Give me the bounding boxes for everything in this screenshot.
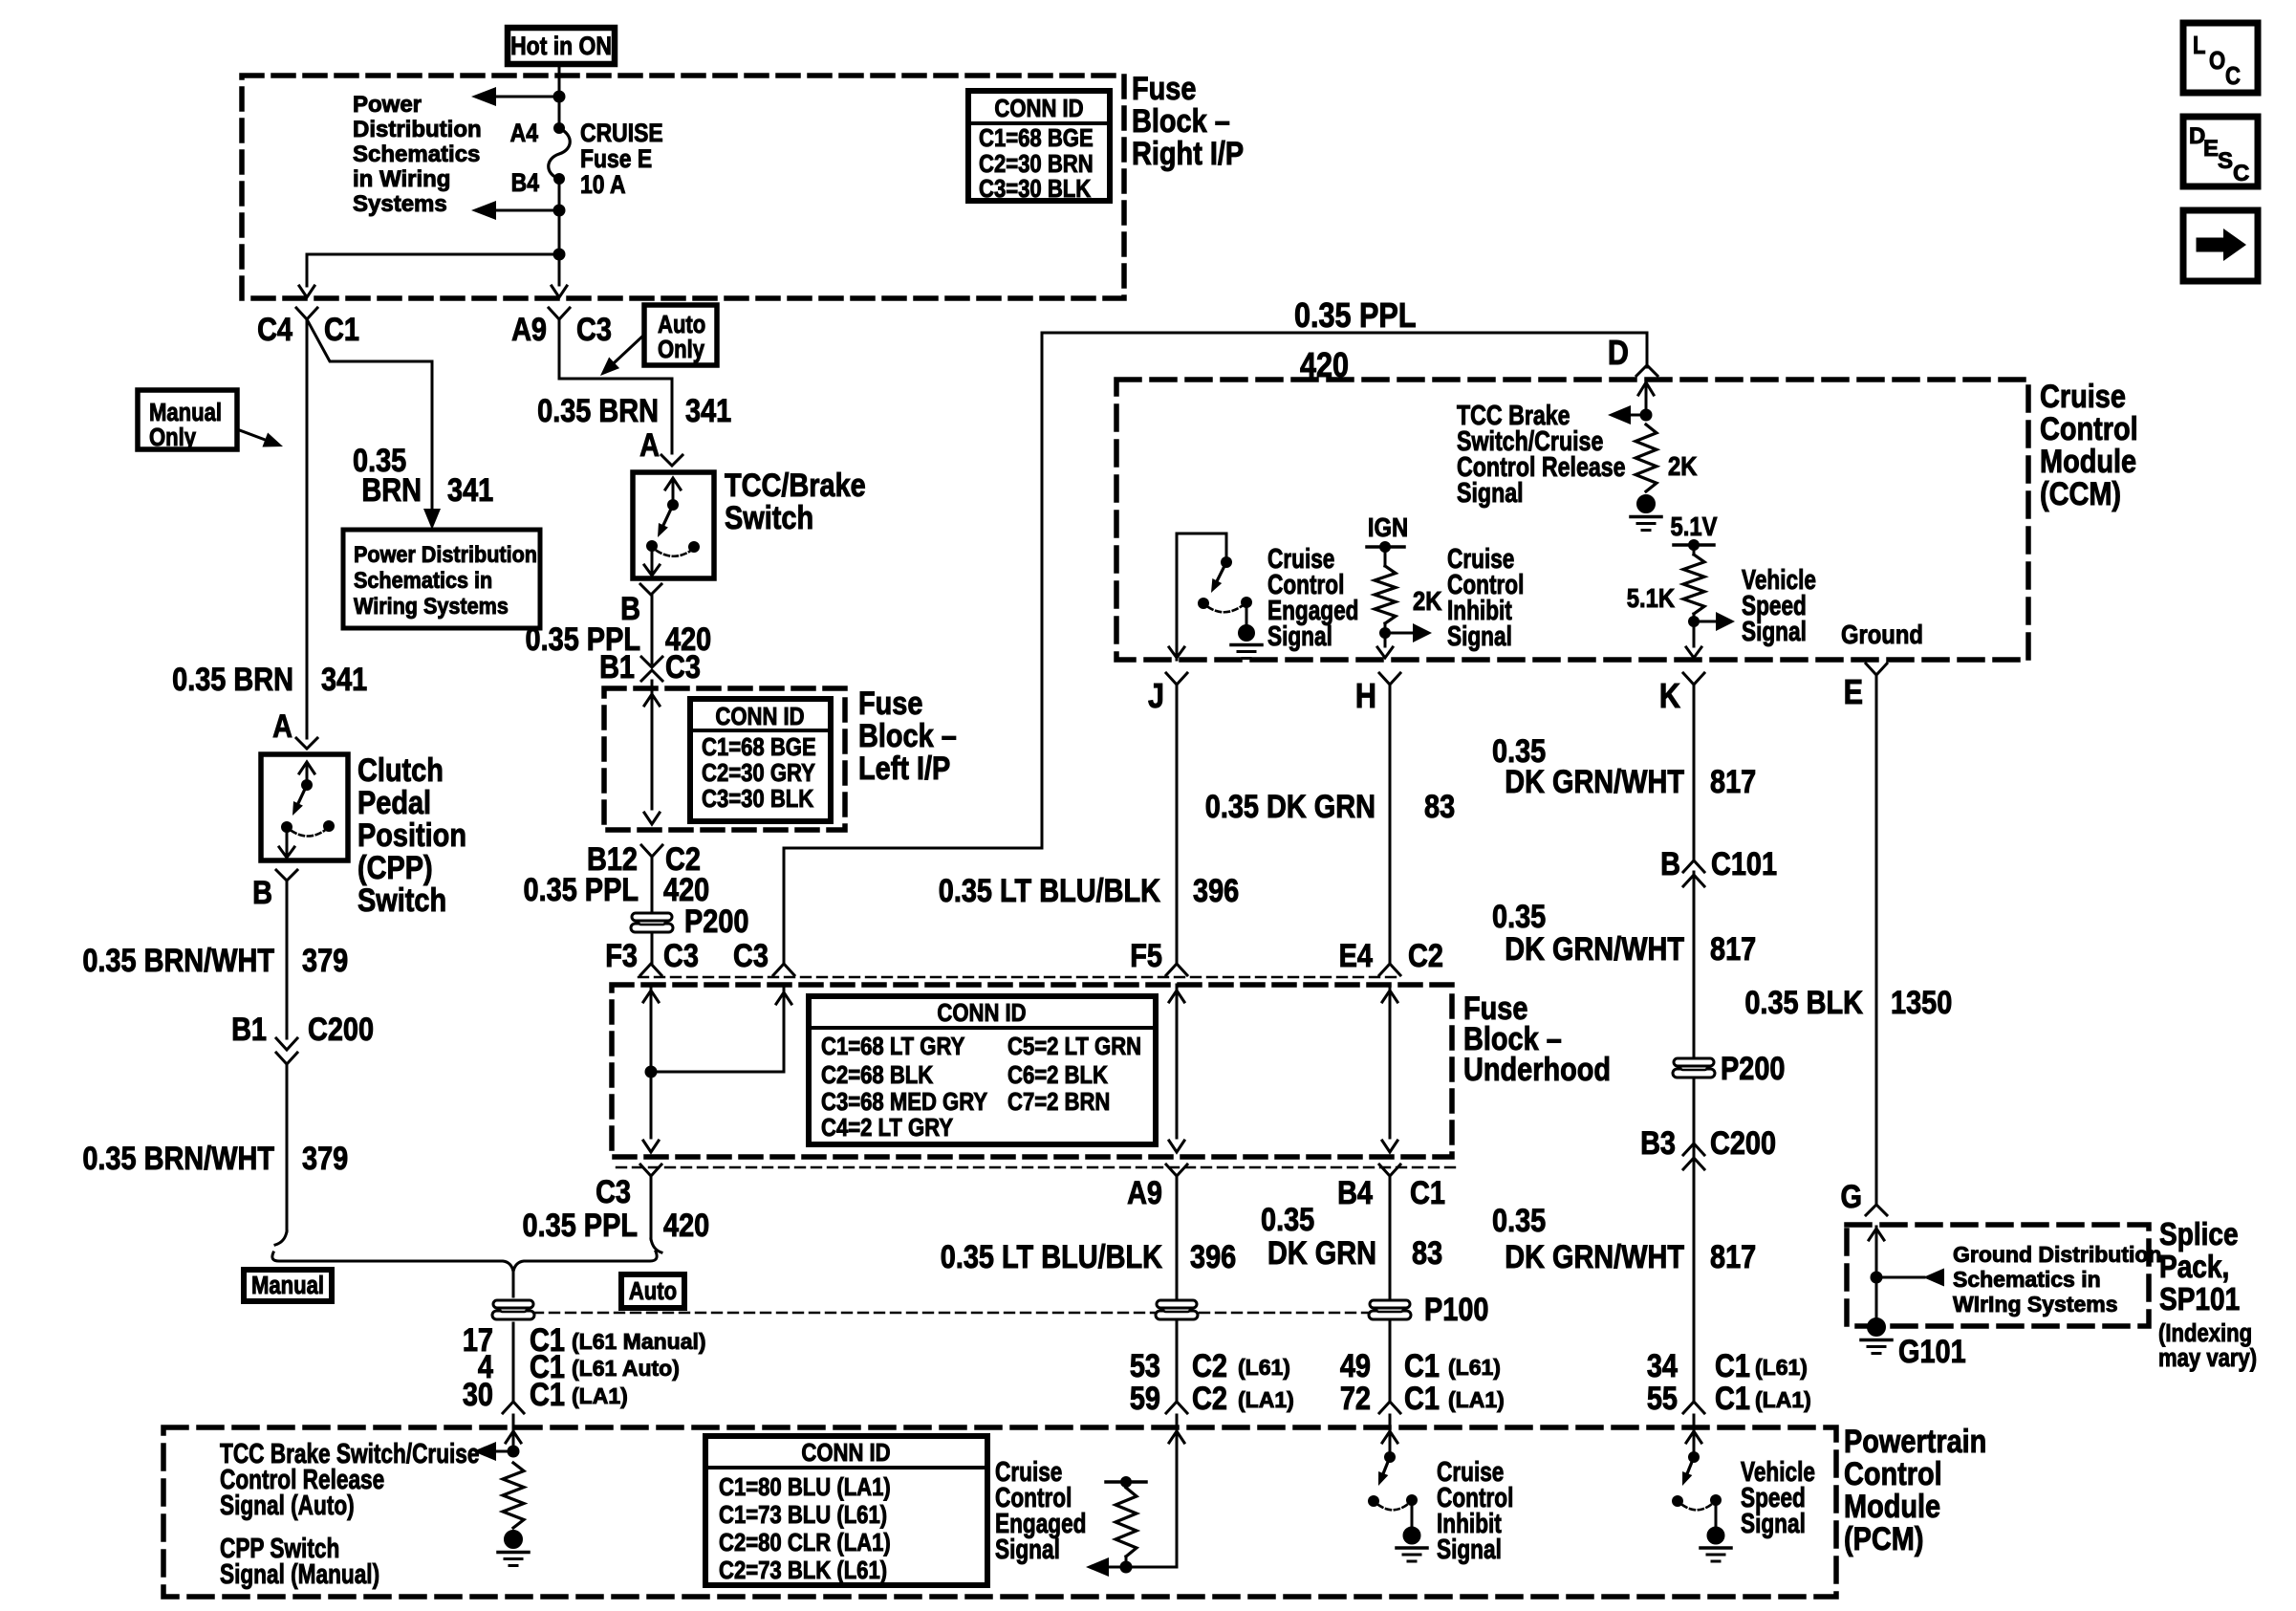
svg-text:B: B (252, 874, 272, 911)
PCM TCC brake release input resistor (473, 1415, 524, 1528)
connector chevron C3 (PPL return) (773, 964, 794, 975)
svg-text:341: 341 (321, 661, 367, 698)
svg-text:(LA1): (LA1) (1755, 1387, 1811, 1412)
wire label 0.35 BLK 1350 (1744, 984, 1952, 1021)
svg-text:S: S (2218, 148, 2233, 174)
svg-text:5.1K: 5.1K (1627, 582, 1675, 613)
svg-text:C3=30 BLK: C3=30 BLK (979, 175, 1092, 203)
connector A at TCC switch (661, 455, 682, 466)
connector chevron PCM H (1379, 1402, 1400, 1413)
svg-text:A: A (639, 426, 660, 464)
inline connector dashed line (top of underhood) (639, 976, 1396, 978)
svg-text:C3: C3 (596, 1173, 631, 1210)
svg-text:IGN: IGN (1368, 512, 1408, 542)
svg-text:Schematics in: Schematics in (1953, 1267, 2101, 1292)
svg-text:Distribution: Distribution (353, 117, 482, 142)
svg-text:34: 34 (1647, 1347, 1679, 1384)
svg-text:Manual: Manual (251, 1272, 324, 1299)
svg-text:(L61 Auto): (L61 Auto) (572, 1356, 680, 1381)
arrow to power distribution (upper) (471, 87, 566, 106)
connector B3/C200 (1640, 1124, 1776, 1169)
svg-text:Schematics in: Schematics in (354, 567, 492, 593)
svg-text:A9: A9 (511, 311, 547, 348)
connector B4/C1 (bottom) (1337, 1165, 1445, 1211)
svg-text:0.35: 0.35 (1492, 898, 1546, 935)
splice bus manual/auto (272, 1252, 657, 1272)
svg-text:Right I/P: Right I/P (1132, 135, 1244, 172)
svg-text:55: 55 (1647, 1380, 1678, 1417)
svg-text:C101: C101 (1711, 845, 1777, 882)
connector B/C101 (1660, 845, 1777, 886)
svg-text:DK GRN/WHT: DK GRN/WHT (1505, 763, 1684, 800)
pin labels 17/4/30 C1 (463, 1321, 706, 1413)
svg-text:341: 341 (447, 471, 493, 509)
svg-text:Ground Distribution: Ground Distribution (1953, 1242, 2161, 1267)
svg-text:C2: C2 (1192, 1347, 1227, 1384)
svg-text:K: K (1659, 678, 1680, 716)
svg-text:CONN ID: CONN ID (994, 95, 1083, 122)
svg-text:(CPP): (CPP) (357, 849, 433, 886)
arrow from Auto Only box (600, 335, 644, 376)
wire: CCM J to F5 (1176, 685, 1179, 964)
svg-text:Schematics: Schematics (353, 142, 480, 167)
label Ground (1841, 619, 1923, 649)
connector J below CCM (1148, 673, 1187, 716)
svg-text:C: C (2233, 161, 2249, 186)
pin label A (TCC) (639, 426, 660, 464)
connector A9/C3 (top) (511, 308, 612, 348)
svg-text:0.35: 0.35 (1492, 1202, 1546, 1239)
wire: C3 down to splice bus (651, 1176, 661, 1252)
resistor value 5.1K (1627, 582, 1675, 613)
svg-text:C2=30 BRN: C2=30 BRN (979, 150, 1094, 178)
svg-text:817: 817 (1710, 1238, 1756, 1275)
svg-text:Control: Control (1844, 1455, 1942, 1492)
svg-text:53: 53 (1130, 1347, 1160, 1384)
box: Manual (244, 1270, 332, 1301)
ground (CCM D resistor) (1631, 495, 1661, 531)
svg-text:Cruise: Cruise (2040, 378, 2126, 415)
svg-text:379: 379 (302, 942, 348, 979)
arrow to power distribution (lower) (471, 201, 566, 220)
svg-text:Switch: Switch (357, 882, 446, 919)
svg-text:B: B (1660, 845, 1680, 882)
label P100 (1424, 1291, 1488, 1328)
text in fuse block: Power Distribution Schematics in Wiring Systems (353, 92, 482, 217)
splice pack internal wire and reference arrow (1869, 1227, 1944, 1319)
label P200 (right) (1721, 1050, 1785, 1087)
wire through underhood (H) (1382, 985, 1397, 1152)
svg-text:0.35 BRN/WHT: 0.35 BRN/WHT (82, 1140, 274, 1177)
svg-text:83: 83 (1412, 1234, 1442, 1272)
wire: A9 to P100 to PCM (J) (1176, 1176, 1179, 1402)
svg-text:0.35 PPL: 0.35 PPL (1294, 297, 1417, 336)
fuse block Underhood dashed enclosure (612, 985, 1452, 1157)
ground (PCM pin17 resistor) (498, 1531, 529, 1566)
svg-text:Signal: Signal (1742, 615, 1807, 646)
wire through underhood (PPL) with junction (643, 985, 791, 1152)
label: Vehicle Speed Signal (PCM) (1741, 1455, 1815, 1538)
svg-text:C4=2 LT GRY: C4=2 LT GRY (821, 1114, 953, 1142)
wire: TCC B to fuse block left I/P (651, 595, 654, 664)
pin label B4 (511, 168, 539, 197)
pin labels 53/59 C2 (1130, 1347, 1294, 1417)
svg-text:Hot in ON: Hot in ON (510, 32, 612, 60)
pin labels 34/55 C1 (1647, 1347, 1811, 1417)
svg-text:Pedal: Pedal (357, 784, 431, 821)
connector B1/C200 (231, 1011, 374, 1064)
svg-text:Systems: Systems (353, 191, 447, 217)
CPP switch internals (279, 762, 335, 858)
svg-text:Block –: Block – (1132, 102, 1230, 140)
svg-text:CRUISE: CRUISE (580, 119, 663, 147)
powertrain control module dashed enclosure (163, 1427, 1836, 1597)
connector H below CCM (1355, 673, 1400, 716)
connector chevron PCM K (1683, 1402, 1704, 1413)
PCM cruise engaged signal input (1086, 1415, 1184, 1577)
svg-text:0.35 BRN: 0.35 BRN (537, 392, 659, 429)
wire through underhood (J) (1169, 985, 1184, 1152)
svg-text:420: 420 (663, 1207, 709, 1244)
grommet P200 (left) (631, 913, 673, 932)
svg-text:C3: C3 (663, 937, 699, 974)
svg-text:J: J (1148, 678, 1164, 716)
svg-text:CONN ID: CONN ID (937, 999, 1026, 1027)
TCC/Brake switch box (633, 472, 714, 578)
svg-text:C7=2 BRN: C7=2 BRN (1007, 1088, 1110, 1116)
svg-text:C1=80 BLU (LA1): C1=80 BLU (LA1) (719, 1473, 891, 1501)
svg-text:A9: A9 (1127, 1174, 1162, 1211)
wire label 0.35 BRN 341 (branch) (353, 442, 493, 509)
connector F3/C3 labels (605, 937, 769, 974)
svg-text:10 A: 10 A (580, 170, 626, 199)
svg-text:Position: Position (357, 816, 466, 854)
label: Cruise Control Engaged Signal (PCM) (995, 1455, 1086, 1564)
wire label 0.35 DK GRN 83 (lower) (1261, 1201, 1442, 1272)
wire: CPP B down (286, 881, 289, 1038)
svg-text:Auto: Auto (629, 1277, 677, 1305)
svg-text:0.35: 0.35 (1261, 1201, 1314, 1238)
wire: C1 down to CPP switch (306, 319, 309, 738)
box: Power Distribution Schematics in Wiring Systems (343, 530, 540, 628)
svg-text:P100: P100 (1424, 1291, 1488, 1328)
svg-text:Block –: Block – (858, 717, 957, 754)
svg-text:817: 817 (1710, 930, 1756, 968)
svg-text:Splice: Splice (2159, 1217, 2239, 1252)
CCM 2K resistor to IGN (1367, 541, 1432, 658)
wire: fuse output down and branch to C4 (307, 210, 566, 286)
arrow exiting fuse block at C4 (299, 286, 314, 297)
svg-text:Ground: Ground (1841, 619, 1923, 649)
label: CPP Switch Signal (Manual) (220, 1532, 379, 1589)
svg-text:2K: 2K (1413, 585, 1442, 616)
label: TCC Brake Switch/Cruise Control Release Signal (Auto) (220, 1437, 479, 1520)
svg-text:(CCM): (CCM) (2040, 475, 2121, 512)
wire label 420 (top) (1300, 347, 1349, 385)
svg-text:379: 379 (302, 1140, 348, 1177)
svg-text:396: 396 (1190, 1238, 1236, 1275)
svg-text:Signal: Signal (1267, 620, 1332, 651)
svg-text:2K: 2K (1668, 450, 1698, 481)
fuse block Left I/P dashed enclosure (604, 688, 845, 830)
svg-text:C2=30 GRY: C2=30 GRY (702, 759, 815, 787)
svg-text:F3: F3 (605, 937, 638, 974)
TCC/Brake switch internals (644, 478, 700, 576)
box: Auto Only (top) (644, 305, 717, 365)
svg-text:C3=68 MED GRY: C3=68 MED GRY (821, 1088, 987, 1116)
connector chevron PCM pin 17 (503, 1402, 524, 1413)
svg-text:Switch: Switch (725, 499, 813, 536)
connector chevron F5 (1130, 937, 1187, 975)
label: Fuse Block Left I/P (858, 685, 957, 787)
svg-text:Only: Only (658, 336, 705, 363)
svg-text:C1: C1 (530, 1376, 565, 1413)
wire: bus to PCM pin 17 (512, 1272, 515, 1402)
svg-text:A: A (272, 708, 292, 745)
svg-text:30: 30 (463, 1376, 493, 1413)
svg-text:(LA1): (LA1) (572, 1383, 628, 1408)
svg-text:Clutch: Clutch (357, 751, 444, 789)
svg-text:(L61): (L61) (1238, 1355, 1290, 1380)
ground G101 (1861, 1318, 1892, 1354)
wire label 0.35 LT BLU/BLK 396 (lower) (941, 1238, 1236, 1275)
connector G chevron (1866, 1205, 1887, 1215)
CCM cruise engaged switch (1169, 533, 1252, 660)
wire: CCM E down to splice pack (1875, 675, 1878, 1203)
svg-text:Left I/P: Left I/P (858, 750, 950, 787)
svg-text:(Indexing: (Indexing (2158, 1319, 2252, 1347)
label: TCC Brake Switch/Cruise Control Release Signal (1457, 399, 1626, 508)
svg-text:Signal: Signal (995, 1533, 1060, 1564)
svg-text:C3: C3 (665, 648, 701, 686)
wire: A9/C3 to TCC brake switch (559, 319, 672, 453)
svg-text:Powertrain: Powertrain (1844, 1423, 1986, 1460)
svg-text:E: E (2203, 136, 2219, 162)
splice pack dashed enclosure (1847, 1225, 2149, 1326)
svg-text:C1: C1 (1404, 1347, 1440, 1384)
forward arrow box (2183, 210, 2258, 281)
cruise control module dashed enclosure (1116, 380, 2028, 660)
pin label G (1841, 1178, 1862, 1215)
DESC reference box (2183, 117, 2258, 186)
svg-text:C1: C1 (1715, 1380, 1750, 1417)
svg-text:O: O (2209, 47, 2225, 75)
label: Cruise Control Engaged Signal (CCM) (1267, 542, 1358, 651)
svg-text:Signal (Manual): Signal (Manual) (220, 1557, 379, 1589)
wire label 0.35 PPL 420 (bottom) (523, 1207, 710, 1244)
label: Cruise Control Inhibit Signal (CCM) (1447, 542, 1524, 651)
svg-text:C3=30 BLK: C3=30 BLK (702, 785, 814, 813)
svg-text:Manual: Manual (149, 399, 222, 426)
pin label A (CPP) (272, 708, 292, 745)
label: Splice Pack SP101 (2159, 1217, 2240, 1317)
wire label 0.35 BRN/WHT 379 (upper) (82, 942, 348, 979)
svg-text:G: G (1841, 1178, 1862, 1215)
connector B12/C2 (587, 840, 701, 878)
wire label 0.35 LT BLU/BLK 396 (upper) (939, 872, 1239, 909)
wire label 0.35 BRN 341 (left) (172, 661, 367, 698)
svg-text:BRN: BRN (361, 471, 422, 509)
bulkhead dashed line (P100 level) (533, 1312, 1371, 1314)
svg-text:0.35 PPL: 0.35 PPL (524, 871, 639, 908)
svg-text:59: 59 (1130, 1380, 1160, 1417)
svg-text:Fuse E: Fuse E (580, 144, 652, 173)
svg-text:Pack,: Pack, (2159, 1250, 2229, 1285)
fuse E CRUISE 10A with A4/B4 pins (549, 97, 571, 210)
connector A at CPP switch (296, 738, 317, 749)
svg-text:C3: C3 (576, 311, 612, 348)
fuse block Right I/P dashed enclosure (242, 76, 1124, 298)
wire: PPL 420 riser to CCM D (784, 333, 1647, 964)
connector K below CCM (1659, 673, 1704, 716)
CCM 5.1K resistor to 5.1V (1674, 539, 1735, 658)
svg-text:C2=68 BLK: C2=68 BLK (821, 1061, 934, 1089)
svg-text:C4: C4 (257, 311, 292, 348)
svg-text:Fuse: Fuse (1132, 70, 1196, 107)
CCM D input with 2K pull-up (1608, 381, 1657, 491)
label 5.1V (1671, 511, 1719, 541)
svg-text:DK GRN: DK GRN (1267, 1234, 1376, 1272)
wire through left I/P fuse block (644, 681, 660, 824)
svg-text:B4: B4 (511, 168, 539, 197)
connector B below CPP (252, 870, 297, 911)
svg-text:1350: 1350 (1891, 984, 1952, 1021)
svg-text:0.35 BRN/WHT: 0.35 BRN/WHT (82, 942, 274, 979)
wire: CCM K down to C101 (1693, 685, 1696, 860)
wire label 0.35 PPL 420 (TCC to left I/P) (526, 620, 712, 658)
PCM cruise inhibit switch (1368, 1415, 1418, 1527)
svg-text:C1=68 BGE: C1=68 BGE (979, 124, 1094, 152)
svg-text:C1: C1 (1410, 1174, 1445, 1211)
svg-text:C1=73 BLU (L61): C1=73 BLU (L61) (719, 1501, 887, 1529)
ground (CCM engaged switch) (1231, 625, 1262, 659)
svg-text:A4: A4 (510, 119, 538, 147)
connector A9 (bottom) (1127, 1165, 1187, 1211)
svg-text:C1: C1 (1404, 1380, 1440, 1417)
grommet P100 (H) (1369, 1300, 1411, 1319)
svg-text:WIrIng Systems: WIrIng Systems (1953, 1292, 2118, 1317)
wire: C101 to P200 (1693, 872, 1696, 1056)
svg-text:83: 83 (1424, 788, 1455, 825)
connector chevron E4/C2 (1339, 937, 1443, 975)
svg-text:Module: Module (2040, 443, 2136, 480)
svg-text:Signal: Signal (1437, 1533, 1502, 1564)
svg-text:C1: C1 (324, 311, 359, 348)
label: Fuse Block Underhood (1463, 990, 1611, 1088)
svg-text:P200: P200 (684, 903, 748, 940)
LOC reference box (2183, 23, 2258, 93)
svg-text:49: 49 (1340, 1347, 1371, 1384)
svg-text:F5: F5 (1130, 937, 1162, 974)
svg-text:C2=80 CLR (LA1): C2=80 CLR (LA1) (719, 1529, 891, 1557)
ground (PCM vss) (1700, 1527, 1731, 1561)
wire label 0.35 PPL (top) (1294, 297, 1417, 336)
connector E below CCM (1844, 664, 1887, 712)
svg-text:Underhood: Underhood (1463, 1051, 1611, 1088)
svg-text:G101: G101 (1898, 1333, 1966, 1370)
connector C4/C1 (257, 308, 359, 348)
svg-text:E4: E4 (1339, 937, 1374, 974)
conn id box (left I/P) (690, 699, 831, 821)
svg-text:(LA1): (LA1) (1448, 1387, 1505, 1412)
svg-text:B3: B3 (1640, 1124, 1676, 1162)
svg-text:DK GRN/WHT: DK GRN/WHT (1505, 1238, 1684, 1275)
svg-text:0.35 LT BLU/BLK: 0.35 LT BLU/BLK (941, 1238, 1162, 1275)
svg-text:(PCM): (PCM) (1844, 1520, 1923, 1557)
box: Auto (bottom) (621, 1274, 684, 1308)
svg-text:B1: B1 (599, 648, 635, 686)
svg-text:396: 396 (1193, 872, 1239, 909)
label: Ground Distribution Schematics in Wiring Systems (1953, 1242, 2161, 1317)
svg-text:CONN ID: CONN ID (715, 703, 804, 730)
svg-text:0.35 DK GRN: 0.35 DK GRN (1205, 788, 1375, 825)
label: Cruise Control Module (CCM) (2040, 378, 2138, 512)
grommet P200 (right) (1673, 1058, 1715, 1078)
connector C3 (bottom, to manual/auto) (596, 1165, 661, 1210)
svg-text:Control: Control (2040, 410, 2138, 447)
connector B below TCC switch (620, 584, 661, 627)
svg-text:C1: C1 (1715, 1347, 1750, 1384)
wire label 0.35 DK GRN 83 (upper) (1205, 788, 1455, 825)
svg-text:SP101: SP101 (2159, 1282, 2240, 1317)
label G101 (1898, 1333, 1966, 1370)
svg-text:(L61): (L61) (1448, 1355, 1501, 1380)
svg-text:Signal (Auto): Signal (Auto) (220, 1489, 355, 1520)
svg-text:C200: C200 (1710, 1124, 1776, 1162)
label: Clutch Pedal Position (CPP) Switch (357, 751, 466, 919)
svg-text:Auto: Auto (658, 311, 705, 338)
svg-text:CONN ID: CONN ID (801, 1439, 890, 1467)
inline connector dashed line (bottom of underhood) (617, 1166, 1455, 1168)
wire: C200 down to bus (275, 1064, 287, 1245)
svg-text:72: 72 (1340, 1380, 1371, 1417)
svg-text:C3: C3 (733, 937, 769, 974)
svg-text:Module: Module (1844, 1488, 1940, 1525)
svg-text:E: E (1844, 674, 1863, 712)
svg-text:Signal: Signal (1447, 620, 1512, 651)
pin labels 49/72 C1 (1340, 1347, 1505, 1417)
clutch pedal position switch box (261, 754, 348, 860)
svg-text:341: 341 (685, 392, 731, 429)
svg-text:C6=2 BLK: C6=2 BLK (1007, 1061, 1108, 1089)
resistor value 2K (D) (1668, 450, 1698, 481)
label: CRUISE Fuse E 10 A (580, 119, 663, 199)
svg-text:D: D (1608, 335, 1629, 373)
svg-text:C1=68 LT GRY: C1=68 LT GRY (821, 1033, 964, 1060)
wire label 0.35 DK GRN/WHT 817 (upper) (1492, 732, 1756, 800)
svg-text:Signal: Signal (1457, 476, 1524, 508)
svg-text:C2=73 BLK (L61): C2=73 BLK (L61) (719, 1557, 887, 1584)
conn id box (underhood) (809, 996, 1156, 1144)
arrow exiting fuse block at A9 (552, 254, 567, 297)
svg-text:Only: Only (149, 424, 197, 451)
connector chevron F3 (640, 964, 661, 975)
conn id box (PCM) (705, 1436, 987, 1585)
svg-text:C2: C2 (1408, 937, 1443, 974)
wire: branch to power distribution reference (307, 319, 441, 530)
svg-text:(L61 Manual): (L61 Manual) (572, 1329, 706, 1354)
svg-text:C200: C200 (308, 1011, 374, 1048)
label: Vehicle Speed Signal (CCM) (1742, 563, 1816, 646)
label: (Indexing may vary) (2158, 1319, 2257, 1372)
connector D chevron (1636, 365, 1657, 376)
svg-text:Fuse: Fuse (858, 685, 922, 722)
svg-text:B1: B1 (231, 1011, 267, 1048)
svg-text:0.35 BLK: 0.35 BLK (1744, 984, 1863, 1021)
conn id box (right I/P) (968, 91, 1110, 203)
label: Powertrain Control Module (PCM) (1844, 1423, 1986, 1557)
wire: P200 to C200 to PCM (K) (1693, 1080, 1696, 1402)
